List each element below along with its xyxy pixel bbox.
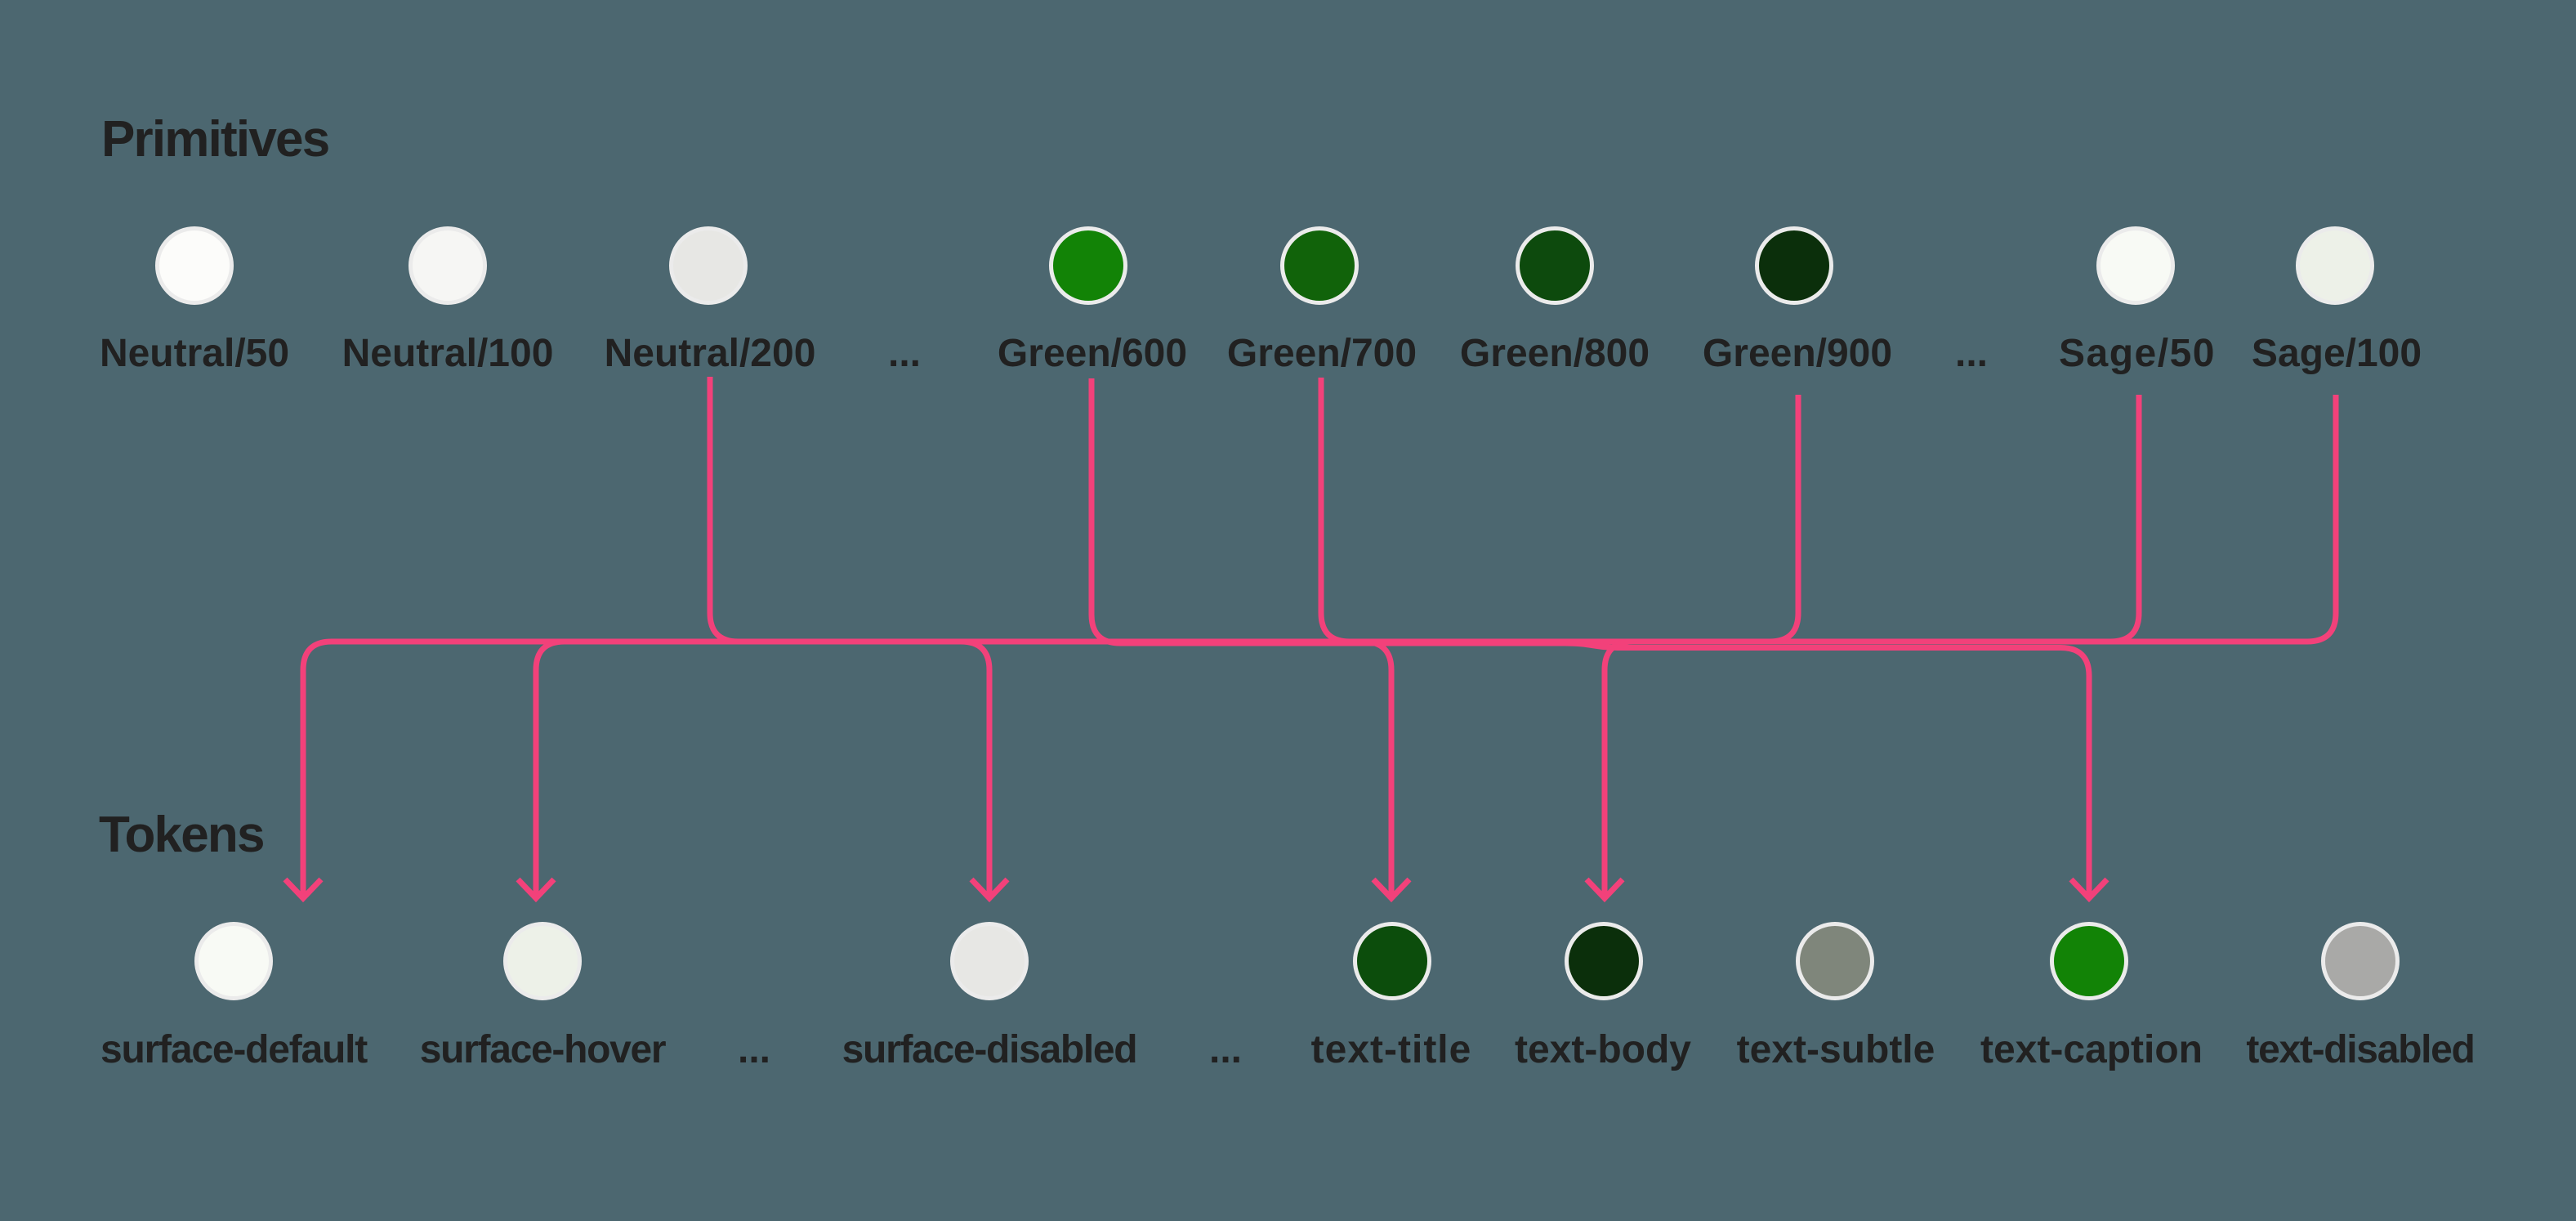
- circle surface-disabled: [953, 924, 1027, 999]
- circle Neutral/200: [672, 229, 746, 303]
- circle surface-hover: [506, 924, 580, 999]
- wire Sage/50 to surface-default: [303, 395, 2139, 898]
- svg-text:Neutral/200: Neutral/200: [605, 332, 816, 375]
- circle Green/600: [1051, 229, 1126, 303]
- circle text-disabled: [2324, 924, 2398, 999]
- circle Neutral/100: [411, 229, 485, 303]
- svg-text:Green/800: Green/800: [1460, 332, 1650, 375]
- circle Green/800: [1518, 229, 1592, 303]
- svg-text:Tokens: Tokens: [99, 807, 264, 863]
- svg-text:Primitives: Primitives: [101, 111, 328, 168]
- svg-text:Green/600: Green/600: [998, 332, 1187, 375]
- arrowhead text-body: [1587, 879, 1623, 898]
- arrowhead surface-hover: [518, 879, 554, 898]
- circle Sage/100: [2298, 229, 2373, 303]
- circle surface-default: [197, 924, 271, 999]
- svg-text:Sage/100: Sage/100: [2252, 332, 2422, 375]
- circle text-title: [1355, 924, 1430, 999]
- wire Neutral/200 to surface-disabled: [710, 377, 989, 898]
- circle Neutral/50: [158, 229, 232, 303]
- svg-text:surface-hover: surface-hover: [420, 1028, 666, 1071]
- svg-text:Sage/50: Sage/50: [2059, 332, 2216, 375]
- svg-text:surface-default: surface-default: [100, 1028, 368, 1071]
- circle text-body: [1567, 924, 1641, 999]
- svg-text:...: ...: [1209, 1028, 1242, 1071]
- svg-text:text-disabled: text-disabled: [2246, 1028, 2474, 1071]
- svg-text:surface-disabled: surface-disabled: [842, 1028, 1137, 1071]
- svg-text:...: ...: [738, 1028, 770, 1071]
- circle Green/900: [1757, 229, 1832, 303]
- svg-text:...: ...: [888, 332, 921, 375]
- svg-text:Neutral/100: Neutral/100: [342, 332, 554, 375]
- arrowhead text-title: [1373, 879, 1409, 898]
- wire Green/700 to text-title: [1321, 378, 1391, 898]
- svg-text:Green/700: Green/700: [1227, 332, 1417, 375]
- svg-text:text-body: text-body: [1515, 1028, 1691, 1071]
- wire Green/600 to text-caption: [1092, 378, 2089, 898]
- wire Sage/100 to surface-hover: [536, 395, 2336, 898]
- circle text-subtle: [1798, 924, 1873, 999]
- svg-text:Green/900: Green/900: [1703, 332, 1892, 375]
- wire Green/900 to text-body: [1605, 395, 1798, 898]
- arrowhead text-caption: [2071, 879, 2107, 898]
- svg-text:Neutral/50: Neutral/50: [100, 332, 289, 375]
- svg-text:text-caption: text-caption: [1980, 1028, 2203, 1071]
- svg-text:...: ...: [1955, 332, 1988, 375]
- circle text-caption: [2052, 924, 2127, 999]
- arrowhead surface-disabled: [971, 879, 1007, 898]
- svg-text:text-subtle: text-subtle: [1737, 1028, 1935, 1071]
- circle Sage/50: [2099, 229, 2173, 303]
- arrowhead surface-default: [285, 879, 321, 898]
- circle Green/700: [1283, 229, 1357, 303]
- svg-text:text-title: text-title: [1311, 1028, 1472, 1071]
